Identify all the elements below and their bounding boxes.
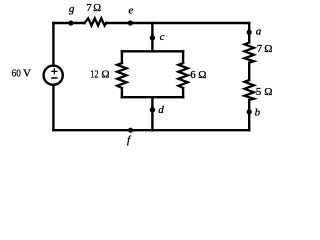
svg-text:7: 7 [257, 43, 263, 55]
node d junction dot [150, 107, 155, 112]
node b junction dot [247, 109, 252, 114]
wire parallel box bottom rail [122, 96, 183, 98]
svg-text:Ω: Ω [198, 69, 206, 81]
wire top-right segment (resistor to right corner) [106, 22, 249, 24]
wire right vertical upper (corner to 7ohm) [248, 23, 250, 43]
node g junction dot [68, 20, 73, 25]
svg-text:60: 60 [12, 67, 22, 79]
svg-text:5: 5 [256, 86, 262, 98]
resistor 12ohm zigzag [117, 63, 126, 88]
resistor 7ohm right zigzag [245, 43, 254, 63]
wire left vertical upper (corner to source) [52, 23, 54, 66]
voltage source minus sign [51, 77, 58, 79]
wire parallel box top rail [122, 50, 183, 52]
wire bottom [53, 129, 249, 131]
wire parallel box right edge upper [182, 51, 184, 63]
wire node c branch (top wire down to parallel box) [151, 23, 153, 51]
svg-text:g: g [69, 3, 75, 15]
svg-text:6: 6 [190, 69, 196, 81]
svg-text:e: e [128, 5, 133, 17]
svg-text:d: d [158, 104, 164, 116]
voltage source plus sign [51, 68, 57, 74]
svg-text:Ω: Ω [101, 69, 109, 81]
svg-text:7: 7 [86, 2, 92, 14]
wire parallel box left edge upper [121, 51, 123, 63]
svg-text:12: 12 [90, 69, 98, 81]
svg-text:c: c [160, 31, 165, 43]
wire parallel box left edge lower [121, 88, 123, 97]
resistor 5ohm right zigzag [245, 80, 254, 100]
svg-text:a: a [256, 26, 262, 38]
resistor 6ohm zigzag [178, 63, 187, 88]
node c junction dot [150, 35, 155, 40]
svg-text:f: f [127, 134, 132, 146]
svg-text:Ω: Ω [264, 86, 272, 98]
wire node d branch (box down to bottom wire) [151, 97, 153, 130]
node a junction dot [247, 30, 252, 35]
svg-text:b: b [255, 106, 261, 118]
node f junction dot [128, 128, 133, 133]
voltage source V 60V circle [44, 66, 63, 85]
wire left vertical lower (source to bottom corner) [52, 85, 54, 131]
wire parallel box right edge lower [182, 88, 184, 97]
svg-text:Ω: Ω [93, 3, 101, 14]
node e junction dot [128, 20, 133, 25]
resistor 7ohm top zigzag [85, 18, 107, 25]
wire right vertical middle (7ohm to 5ohm) [248, 63, 250, 80]
wire top-left segment (corner to resistor) [53, 22, 84, 24]
wire right vertical lower (5ohm to bottom corner) [248, 100, 250, 130]
svg-text:Ω: Ω [264, 43, 272, 55]
svg-text:V: V [23, 67, 31, 79]
